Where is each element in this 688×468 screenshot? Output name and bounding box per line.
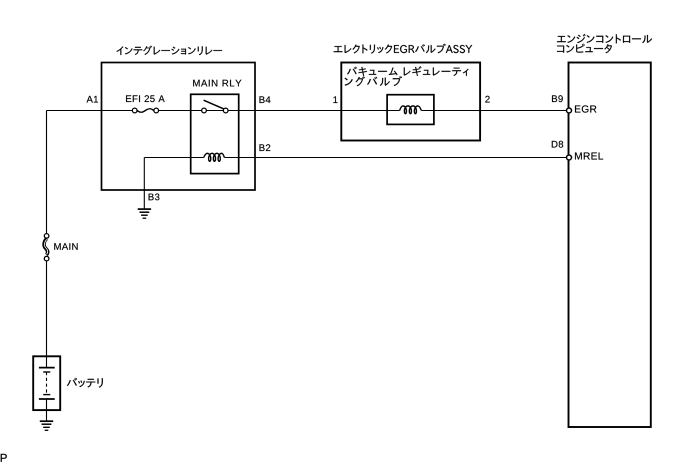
wire EGR coil to ECU pin B9 — [421, 110, 568, 112]
wire relay coil B2 to ECU pin D8 — [224, 157, 568, 159]
electric EGR valve assy box — [341, 63, 480, 141]
relay contact arm — [204, 100, 224, 109]
wire battery feed vertical upper — [46, 111, 48, 235]
wire fuse to EGR coil — [158, 110, 400, 112]
pin B4 — [260, 96, 271, 103]
relay coil L1 — [204, 153, 225, 161]
MAIN RLY relay box — [191, 94, 239, 173]
link name MAIN — [54, 243, 77, 250]
battery top feed — [46, 356, 48, 367]
wire main A1 to fuse — [47, 110, 133, 112]
engine control computer box U2 — [569, 63, 651, 428]
pin A1 — [87, 96, 99, 103]
wire B3 down to ground — [143, 158, 145, 209]
pin 2 — [485, 96, 489, 103]
fuse terminal right — [154, 108, 159, 113]
fuse terminal left — [132, 108, 137, 113]
fuse EFI 25 A wave — [137, 109, 153, 113]
label battery バッテリ — [67, 378, 103, 388]
battery top long plate — [39, 367, 55, 369]
wire relay coil left to B3 branch — [144, 157, 203, 159]
pin D8 — [552, 141, 563, 148]
label vacuum regulating valve line2 ングバルブ — [345, 76, 402, 86]
battery BAT box — [33, 356, 60, 410]
wire battery negative to ground — [46, 399, 48, 421]
ground GND2 below battery — [40, 420, 53, 422]
label electric EGR valve assy エレクトリックEGRバルブASSY — [334, 44, 473, 54]
label engine control computer line1 エンジンコントロール — [557, 34, 652, 43]
net MREL — [575, 153, 603, 160]
net EGR — [575, 105, 596, 112]
relay contact terminal left — [202, 108, 207, 113]
label engine control computer line2 コンピュータ — [557, 44, 612, 54]
pin B9 — [552, 95, 563, 102]
integration relay box U1 — [102, 63, 256, 191]
vacuum regulating valve box — [387, 95, 434, 125]
fusible link inner white curve — [45, 239, 48, 254]
pin B2 — [260, 144, 271, 151]
pin B3 — [149, 194, 160, 201]
node D8 junction circle — [567, 155, 572, 160]
relay contact terminal right — [223, 108, 228, 113]
battery bottom long plate — [39, 398, 55, 400]
ground GND1 below B3 — [138, 208, 151, 210]
label MAIN RLY — [193, 80, 241, 87]
wire battery feed vertical lower — [46, 260, 48, 356]
node B9 junction circle — [567, 108, 572, 113]
fusible link terminal bottom — [44, 256, 49, 261]
EGR vacuum regulating valve coil L2 — [400, 106, 422, 114]
battery dashed cells — [46, 372, 48, 395]
battery top short plate — [43, 371, 50, 373]
fusible link MAIN body — [44, 239, 48, 255]
battery bottom short plate — [43, 394, 50, 396]
fuse value EFI 25 A — [126, 95, 165, 102]
label integration relay インテグレーションリレー — [117, 46, 223, 55]
fusible link terminal top — [44, 234, 49, 239]
page letter P — [1, 454, 7, 462]
pin 1 — [333, 96, 337, 103]
label vacuum regulating valve line1 バキューム レギュレーティ — [347, 66, 468, 76]
